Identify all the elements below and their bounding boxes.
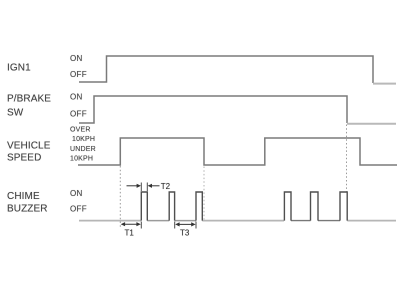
svg-text:UNDER: UNDER <box>70 146 96 153</box>
svg-text:SW: SW <box>7 108 24 119</box>
chime pulse 2 <box>169 192 174 221</box>
node dashed reference line at vehicle-speed fall (x=204) <box>203 167 205 220</box>
wire IGN1 waveform (off-on-off) <box>79 56 373 83</box>
svg-text:SPEED: SPEED <box>7 153 41 164</box>
svg-text:VEHICLE: VEHICLE <box>7 141 51 152</box>
dimension T2 left-pointing arrow <box>152 185 160 187</box>
svg-text:T2: T2 <box>161 182 171 191</box>
node dashed reference line at vehicle-speed rise (x=120) <box>119 166 121 228</box>
chime pulse 3 <box>196 192 202 221</box>
wire chime off gap pulse5-pulse6 <box>318 220 340 222</box>
svg-text:ON: ON <box>70 189 83 198</box>
wire chime off trailing baseline segment <box>347 220 396 222</box>
wire P/BRAKE trailing off segment <box>347 123 396 125</box>
svg-text:OFF: OFF <box>70 70 87 79</box>
chime pulse 4 <box>284 192 291 221</box>
svg-text:OVER: OVER <box>70 127 91 134</box>
wire chime off gap pulse4-pulse5 <box>291 220 311 222</box>
chime pulse 5 <box>311 192 319 221</box>
chime pulse 1 <box>141 192 147 221</box>
dimension T3 double arrow <box>177 223 195 225</box>
svg-text:BUZZER: BUZZER <box>7 204 48 215</box>
wire P/BRAKE waveform (off-on-off) <box>79 96 347 123</box>
svg-text:IGN1: IGN1 <box>7 63 31 74</box>
svg-text:10KPH: 10KPH <box>70 156 93 163</box>
svg-text:T3: T3 <box>180 229 190 238</box>
dimension T2 extension ticks above pulse 1 <box>141 183 147 192</box>
wire chime off gap pulse1-pulse2 <box>147 220 169 222</box>
dimension T1 double arrow <box>123 223 140 225</box>
svg-text:ON: ON <box>70 93 83 102</box>
dimension T3 extension ticks below pulses 2-3 <box>175 222 196 229</box>
wire chime off baseline segment between pulse groups <box>202 220 284 222</box>
svg-text:10KPH: 10KPH <box>72 136 95 143</box>
svg-text:OFF: OFF <box>70 110 87 119</box>
svg-text:P/BRAKE: P/BRAKE <box>7 94 51 105</box>
dimension T1 extension tick below pulse 1 rise <box>140 222 142 229</box>
svg-text:ON: ON <box>70 54 83 63</box>
wire VEHICLE SPEED waveform <box>78 138 397 165</box>
dimension T2 right-pointing arrow <box>127 185 138 187</box>
wire IGN1 trailing off segment <box>373 83 396 85</box>
svg-text:CHIME: CHIME <box>7 191 40 202</box>
wire chime off baseline segment 1 <box>79 220 141 222</box>
wire chime off gap pulse2-pulse3 <box>175 220 196 222</box>
svg-text:OFF: OFF <box>70 205 87 214</box>
chime pulse 6 <box>340 192 347 221</box>
node dashed reference line at p/brake fall (x=346.5) <box>346 125 348 192</box>
svg-text:T1: T1 <box>125 229 135 238</box>
